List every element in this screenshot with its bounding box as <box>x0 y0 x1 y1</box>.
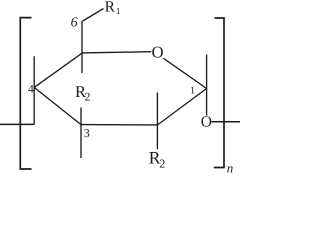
svg-text:2: 2 <box>85 91 91 103</box>
svg-text:n: n <box>227 160 234 173</box>
svg-text:R: R <box>105 0 116 16</box>
svg-text:6: 6 <box>71 16 78 31</box>
svg-text:1: 1 <box>190 85 195 96</box>
svg-text:O: O <box>152 43 164 62</box>
svg-text:2: 2 <box>159 156 165 170</box>
svg-text:1: 1 <box>116 6 121 16</box>
svg-text:3: 3 <box>84 126 90 140</box>
svg-text:O: O <box>201 114 212 131</box>
svg-text:4: 4 <box>28 83 34 95</box>
